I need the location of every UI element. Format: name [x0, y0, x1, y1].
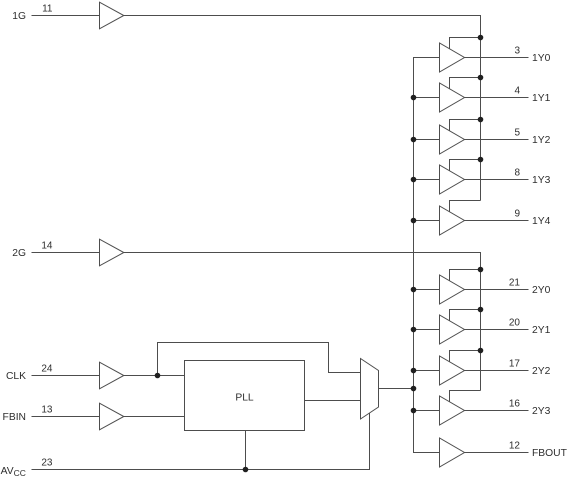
- PLL label: [235, 393, 254, 404]
- buffer 2Y3: [440, 396, 465, 425]
- svg-text:12: 12: [509, 441, 521, 452]
- wire 1Y2 input stub: [414, 139, 440, 141]
- wire PLL output to mux: [305, 400, 361, 402]
- wire FBOUT output: [465, 452, 529, 454]
- svg-text:13: 13: [41, 405, 53, 416]
- svg-text:24: 24: [41, 364, 53, 375]
- pin 13 label: [41, 405, 53, 416]
- wire FBIN to PLL: [124, 416, 185, 418]
- junction 2Y0 enable: [478, 267, 484, 273]
- wire 2Y0 enable stub: [450, 270, 481, 282]
- buffer 1G input: [100, 2, 124, 29]
- pin 5 label: [514, 128, 520, 139]
- pin 24 label: [41, 364, 53, 375]
- svg-text:CLK: CLK: [6, 371, 26, 382]
- svg-text:3: 3: [514, 46, 520, 57]
- junction 1Y2 enable: [478, 117, 484, 123]
- buffer 2G input: [100, 239, 124, 266]
- output 1Y0 label: [532, 53, 551, 64]
- output FBOUT label: [532, 448, 568, 459]
- PLL block: [185, 361, 305, 431]
- svg-text:9: 9: [514, 209, 520, 220]
- svg-text:4: 4: [514, 86, 520, 97]
- svg-text:23: 23: [41, 458, 53, 469]
- svg-text:AVCC: AVCC: [1, 466, 26, 477]
- buffer 1Y0: [440, 43, 465, 72]
- svg-text:2Y0: 2Y0: [532, 285, 551, 296]
- wire CLK to PLL: [124, 375, 185, 377]
- wire 2Y1 output: [465, 329, 529, 331]
- wire 2Y3 output: [465, 410, 529, 412]
- junction 1Y3 enable: [478, 157, 484, 163]
- output 2Y2 label: [532, 366, 551, 377]
- wire 2G enable net to 2Y bank: [124, 253, 481, 391]
- junction AVCC to PLL: [243, 467, 249, 473]
- wire 2Y2 input stub: [414, 370, 440, 372]
- buffer 2Y2: [440, 356, 465, 385]
- wire 1Y3 output: [465, 179, 529, 181]
- wire 1Y3 enable stub: [450, 160, 481, 172]
- junction 2Y1 enable: [478, 307, 484, 313]
- wire 2Y2 enable stub: [450, 351, 481, 363]
- pin 11 label: [42, 4, 53, 15]
- input 1G label: [12, 11, 26, 22]
- buffer CLK input: [100, 362, 124, 389]
- svg-text:PLL: PLL: [235, 393, 254, 404]
- wire 1Y1 input stub: [414, 97, 440, 99]
- input CLK label: [6, 371, 26, 382]
- svg-text:14: 14: [41, 241, 53, 252]
- pin 3 label: [514, 46, 520, 57]
- buffer 2Y0: [440, 275, 465, 304]
- junction 2Y0 input: [411, 287, 417, 293]
- buffer 1Y4: [440, 206, 465, 235]
- svg-text:2G: 2G: [12, 248, 26, 259]
- wire 1Y3 input stub: [414, 179, 440, 181]
- wire 2G input: [32, 252, 100, 254]
- wire AVCC net to mux select: [32, 413, 370, 470]
- input AVCC label: [1, 466, 26, 477]
- svg-text:1G: 1G: [12, 11, 26, 22]
- wire PLL bypass to mux: [158, 343, 361, 376]
- svg-text:17: 17: [509, 359, 521, 370]
- junction 2Y2 input: [411, 368, 417, 374]
- input 2G label: [12, 248, 26, 259]
- junction 1Y4 input: [411, 218, 417, 224]
- output 1Y3 label: [532, 175, 551, 186]
- svg-text:1Y4: 1Y4: [532, 216, 551, 227]
- junction 2Y3 input: [411, 408, 417, 414]
- buffer 1Y2: [440, 125, 465, 154]
- svg-text:2Y2: 2Y2: [532, 366, 551, 377]
- svg-text:2Y1: 2Y1: [532, 325, 551, 336]
- wire 1Y2 enable stub: [450, 120, 481, 132]
- svg-text:1Y0: 1Y0: [532, 53, 551, 64]
- wire 1Y4 output: [465, 220, 529, 222]
- input FBIN label: [3, 412, 26, 423]
- wire mux output: [379, 388, 414, 390]
- buffer 1Y1: [440, 83, 465, 112]
- pin 4 label: [514, 86, 520, 97]
- junction 2Y1 input: [411, 327, 417, 333]
- pin 14 label: [41, 241, 53, 252]
- wire 1Y0 enable stub: [450, 38, 481, 50]
- wire 1Y1 enable stub: [450, 78, 481, 90]
- pin 9 label: [514, 209, 520, 220]
- svg-text:1Y1: 1Y1: [532, 93, 551, 104]
- svg-text:20: 20: [509, 318, 521, 329]
- svg-text:FBOUT: FBOUT: [532, 448, 568, 459]
- pin 21 label: [509, 278, 521, 289]
- wire CLK input: [32, 375, 100, 377]
- buffer FBOUT: [440, 438, 465, 467]
- wire 1G input: [32, 15, 100, 17]
- output 2Y1 label: [532, 325, 551, 336]
- pin 8 label: [514, 168, 520, 179]
- svg-text:11: 11: [42, 4, 53, 15]
- wire 2Y3 enable stub: [450, 391, 481, 403]
- pin 16 label: [509, 399, 521, 410]
- buffer 2Y1: [440, 315, 465, 344]
- svg-text:1Y3: 1Y3: [532, 175, 551, 186]
- output 1Y1 label: [532, 93, 551, 104]
- junction 1Y1 enable: [478, 75, 484, 81]
- junction CLK bypass tap: [155, 373, 161, 379]
- junction 1Y1 input: [411, 95, 417, 101]
- output 2Y3 label: [532, 406, 551, 417]
- buffer 1Y3: [440, 165, 465, 194]
- svg-text:21: 21: [509, 278, 521, 289]
- wire 2Y2 output: [465, 370, 529, 372]
- svg-text:8: 8: [514, 168, 520, 179]
- output 1Y4 label: [532, 216, 551, 227]
- wire 2Y0 output: [465, 289, 529, 291]
- output 1Y2 label: [532, 135, 551, 146]
- wire 1Y0 output: [465, 57, 529, 59]
- output 2Y0 label: [532, 285, 551, 296]
- junction 1Y2 input: [411, 137, 417, 143]
- svg-text:1Y2: 1Y2: [532, 135, 551, 146]
- pin 20 label: [509, 318, 521, 329]
- junction 2Y2 enable: [478, 348, 484, 354]
- wire 2Y0 input stub: [414, 289, 440, 291]
- junction mux output on bus: [411, 386, 417, 392]
- wire 2Y3 input stub: [414, 410, 440, 412]
- wire 2Y1 input stub: [414, 329, 440, 331]
- wire AVCC to PLL supply: [245, 431, 247, 470]
- wire 1Y1 output: [465, 97, 529, 99]
- buffer FBIN input: [100, 403, 124, 430]
- wire distribution bus: [414, 58, 440, 453]
- svg-text:2Y3: 2Y3: [532, 406, 551, 417]
- wire 2Y1 enable stub: [450, 310, 481, 322]
- mux: [361, 359, 379, 420]
- svg-text:16: 16: [509, 399, 521, 410]
- pin 23 label: [41, 458, 53, 469]
- svg-text:FBIN: FBIN: [3, 412, 26, 423]
- svg-text:5: 5: [514, 128, 520, 139]
- wire FBIN input: [32, 416, 100, 418]
- pin 12 label: [509, 441, 521, 452]
- junction 1Y3 input: [411, 177, 417, 183]
- wire 1Y4 enable stub: [450, 201, 481, 213]
- wire 1Y2 output: [465, 139, 529, 141]
- pin 17 label: [509, 359, 521, 370]
- wire 1Y4 input stub: [414, 220, 440, 222]
- wire 1G enable net to 1Y bank: [124, 16, 481, 201]
- junction 1Y0 enable: [478, 35, 484, 41]
